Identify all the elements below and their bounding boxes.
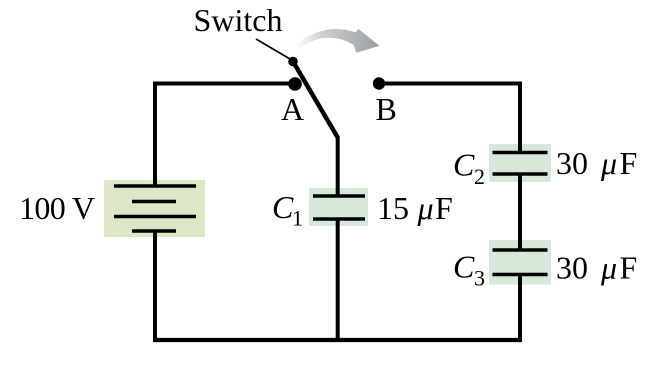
wire C3 to bottom rail: [518, 275, 522, 341]
svg-text:3: 3: [474, 266, 485, 291]
capacitor C2 highlight box: [489, 144, 551, 182]
svg-text:15: 15: [377, 190, 409, 226]
svg-text:F: F: [620, 145, 638, 181]
capacitor C1 highlight box: [309, 188, 368, 226]
svg-text:30: 30: [556, 145, 588, 181]
svg-text:F: F: [620, 250, 638, 286]
svg-text:Switch: Switch: [194, 2, 283, 38]
wire between C2 and C3: [518, 174, 522, 250]
svg-text:F: F: [435, 190, 453, 226]
capacitor C2 plates: [493, 153, 548, 175]
switch blade: [293, 62, 338, 138]
svg-text:μ: μ: [600, 250, 617, 286]
switch label pointer line: [256, 39, 290, 59]
battery V1 plates: [114, 186, 196, 231]
svg-text:100 V: 100 V: [19, 190, 95, 226]
svg-text:30: 30: [556, 250, 588, 286]
wire battery negative to bottom rail: [153, 231, 157, 340]
switch throw arrow: [297, 29, 380, 53]
wire contact B to right branch: [379, 84, 520, 154]
capacitor C3 plates: [493, 250, 548, 275]
wire top left (battery to contact A): [155, 84, 295, 187]
battery V1 highlight box: [104, 180, 205, 237]
svg-text:2: 2: [474, 164, 485, 189]
svg-text:μ: μ: [417, 190, 434, 226]
svg-text:C: C: [272, 189, 294, 225]
capacitor C3 highlight box: [489, 240, 551, 285]
svg-text:A: A: [281, 91, 304, 127]
node A dot: [288, 77, 302, 91]
wire bottom rail: [153, 338, 522, 342]
svg-text:C: C: [453, 249, 475, 285]
svg-text:C: C: [453, 147, 475, 183]
svg-text:B: B: [376, 91, 397, 127]
wire switch blade to C1: [336, 136, 340, 196]
capacitor C1 plates: [313, 196, 365, 219]
svg-text:1: 1: [292, 206, 303, 231]
wire C1 to bottom rail: [336, 219, 340, 340]
svg-text:μ: μ: [600, 145, 617, 181]
switch pivot dot: [288, 57, 298, 67]
node B dot: [373, 77, 385, 89]
